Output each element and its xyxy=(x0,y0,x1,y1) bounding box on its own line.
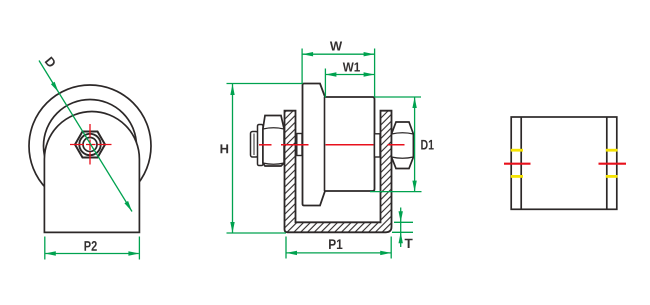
right spacer xyxy=(375,134,381,157)
D1 arrow top xyxy=(412,97,416,108)
arrowhead on circle xyxy=(51,82,59,93)
left nut chamfer bottom xyxy=(263,163,284,164)
U-channel bracket (hatched) xyxy=(285,111,392,233)
label H xyxy=(220,144,228,153)
red centerline seg3 xyxy=(326,144,374,146)
bolt cap thread line xyxy=(253,134,255,156)
flange face line xyxy=(324,97,326,191)
D1 dimension line xyxy=(414,97,416,192)
yellow mark top-right xyxy=(606,149,618,152)
red centerline seg2 xyxy=(281,144,309,146)
P2 extension left xyxy=(44,237,46,260)
body rectangle xyxy=(511,117,617,209)
W dimension line xyxy=(302,53,375,55)
W/W1 extension right xyxy=(374,49,376,98)
left wall line xyxy=(520,117,522,209)
wheel outer circle xyxy=(29,85,151,207)
yellow mark bottom-right xyxy=(606,175,618,178)
T reference top xyxy=(394,221,413,223)
label P2 xyxy=(84,241,90,251)
red mark left xyxy=(504,163,531,165)
leader line D xyxy=(39,61,132,212)
red centerline seg1 xyxy=(259,144,272,146)
T reference bottom xyxy=(392,231,413,233)
P1 extension left xyxy=(285,237,287,259)
W arrow right xyxy=(364,52,375,56)
label D1 xyxy=(421,140,427,150)
T arrow up xyxy=(399,232,403,243)
left hex nut xyxy=(263,116,284,167)
D1 reference bottom xyxy=(370,191,422,193)
H reference top xyxy=(227,83,303,85)
right wall line xyxy=(606,117,608,209)
P2 dimension line xyxy=(46,253,139,255)
P1 arrow left xyxy=(286,251,297,255)
right nut chamfer bottom xyxy=(392,157,414,158)
D1 reference top xyxy=(375,96,421,98)
red crosshair vertical xyxy=(89,124,91,165)
arrowhead line end xyxy=(124,201,132,212)
W1 dimension line xyxy=(325,74,374,76)
yellow mark top-left xyxy=(511,149,523,152)
yellow mark bottom-left xyxy=(511,175,523,178)
P2 extension right xyxy=(138,237,140,260)
label P1 xyxy=(329,239,336,249)
bracket body xyxy=(44,112,139,233)
right nut chamfer top xyxy=(392,133,414,134)
red centerline seg4 xyxy=(388,144,405,146)
label D xyxy=(45,56,57,68)
label W xyxy=(330,42,342,51)
left nut chamfer top xyxy=(263,128,284,129)
label W1 xyxy=(343,63,354,72)
label T xyxy=(405,239,413,248)
P1 dimension line xyxy=(286,252,391,254)
W1 arrow left xyxy=(325,72,336,76)
P2 arrow left xyxy=(45,251,56,255)
wheel front profile xyxy=(303,84,375,206)
H arrow bottom xyxy=(230,222,234,233)
W1 arrow right xyxy=(364,72,375,76)
T arrow down xyxy=(399,211,403,222)
nut inner circle xyxy=(83,138,97,152)
left spacer xyxy=(297,134,302,156)
P2 arrow right xyxy=(128,251,139,255)
left washer xyxy=(258,125,264,166)
H reference bottom xyxy=(227,232,287,234)
H dimension line xyxy=(232,84,234,233)
P1 extension right xyxy=(390,237,392,259)
hex nut xyxy=(75,132,105,158)
P1 arrow right xyxy=(380,251,391,255)
T stem xyxy=(400,208,402,248)
wheel drum circle xyxy=(44,100,137,193)
W extension left xyxy=(301,49,303,85)
red crosshair horizontal xyxy=(70,144,112,146)
right hex nut xyxy=(392,122,414,169)
nut bore circle xyxy=(79,134,100,155)
bolt end cap xyxy=(251,132,259,158)
red mark right xyxy=(599,163,627,165)
W arrow left xyxy=(302,52,313,56)
H arrow top xyxy=(230,84,234,95)
D1 arrow bottom xyxy=(412,181,416,192)
W1 extension left xyxy=(324,69,326,98)
